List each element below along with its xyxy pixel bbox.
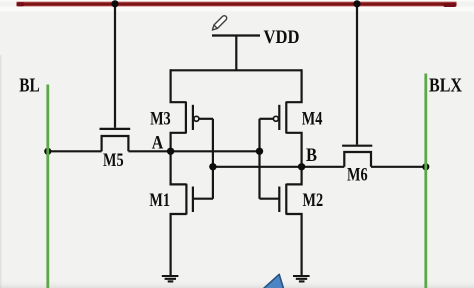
word line WL (red) [17, 1, 457, 7]
ground right [293, 276, 310, 281]
transistor M2 gate lead [260, 198, 280, 200]
node A junction [167, 148, 174, 155]
wire BL to M5 [48, 150, 102, 152]
transistor M1 gate bar [192, 187, 194, 213]
transistor M2 drain lead [286, 166, 301, 185]
svg-text:B: B [306, 145, 317, 166]
wire M6 to BLX [371, 166, 426, 168]
transistor M3 drain lead [171, 133, 186, 152]
junction node A wire to M4/M2 gate line [256, 148, 263, 155]
svg-text:M4: M4 [302, 109, 323, 130]
svg-text:M5: M5 [103, 150, 124, 171]
wire VDD rail [171, 69, 302, 71]
transistor M4 gate bar [278, 105, 280, 130]
transistor M5 channel [102, 136, 129, 151]
transistor M4 channel bar [285, 102, 287, 134]
svg-text:BL: BL [19, 75, 40, 97]
pencil cursor icon [211, 15, 228, 32]
transistor M4 source lead [286, 69, 301, 102]
wire WL to M5 gate [114, 4, 116, 128]
VDD supply bar [212, 34, 260, 36]
transistor M1 source lead [171, 214, 187, 275]
svg-text:BLX: BLX [429, 75, 462, 97]
transistor M2 channel bar [285, 184, 287, 215]
wire cross-couple right (gates of M4,M2 to node A) [258, 119, 260, 199]
wire node B (gate line of M3/M1 to M6) [213, 166, 344, 168]
transistor M4 drain lead [286, 133, 301, 167]
node B junction [298, 163, 305, 170]
junction node B wire to M3/M1 gate line [209, 163, 216, 170]
junction BLX-M6 [422, 163, 429, 170]
svg-text:M1: M1 [149, 190, 170, 211]
svg-text:M3: M3 [150, 109, 171, 130]
blue cursor [263, 274, 283, 288]
transistor M1 gate lead [193, 198, 213, 200]
junction BL-M5 [44, 148, 51, 155]
svg-text:VDD: VDD [264, 28, 300, 48]
transistor M6 gate bar [342, 145, 372, 147]
wire VDD stub [235, 36, 237, 71]
transistor M4 gate lead [260, 118, 274, 120]
wire node A (M5 to gate line of M4/M2) [128, 150, 259, 152]
transistor M2 source lead [286, 214, 301, 275]
transistor M6 channel [344, 152, 371, 167]
transistor M3 gate lead [199, 118, 213, 120]
transistor M5 gate bar [100, 128, 131, 130]
junction WL-M6 [353, 0, 360, 7]
junction WL-M5 [111, 0, 118, 7]
bitline BLX (green) [424, 74, 427, 288]
transistor M1 channel bar [185, 184, 187, 215]
svg-text:A: A [152, 133, 164, 154]
wire cross-couple left (gates of M3,M1 to node B) [212, 119, 214, 199]
transistor M3 gate bubble [194, 116, 199, 121]
ground left [162, 276, 179, 281]
transistor M2 gate bar [278, 187, 280, 213]
transistor M3 source lead [171, 69, 186, 102]
bitline BL (green) [46, 85, 49, 288]
wire WL to M6 gate [356, 4, 358, 145]
transistor M4 gate bubble [273, 116, 278, 121]
svg-text:M2: M2 [303, 190, 324, 211]
transistor M1 drain lead [171, 150, 187, 184]
transistor M3 channel bar [185, 102, 187, 134]
svg-text:M6: M6 [347, 164, 368, 185]
transistor M3 gate bar [192, 105, 194, 130]
